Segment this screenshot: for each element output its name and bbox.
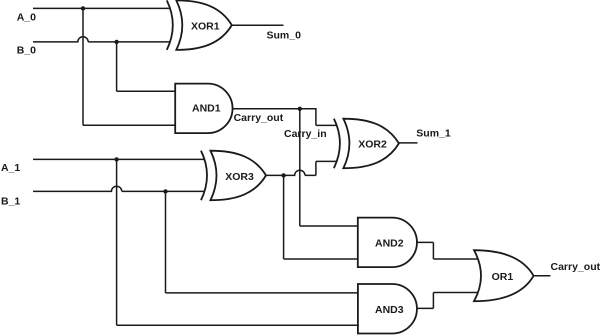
svg-text:Sum_0: Sum_0 xyxy=(267,30,302,42)
svg-text:AND1: AND1 xyxy=(192,103,221,115)
svg-text:AND3: AND3 xyxy=(375,304,404,316)
svg-text:XOR2: XOR2 xyxy=(358,138,387,150)
svg-text:Carry_out: Carry_out xyxy=(551,261,600,273)
svg-text:OR1: OR1 xyxy=(492,271,514,283)
svg-text:Carry_out: Carry_out xyxy=(234,112,284,124)
svg-text:B_0: B_0 xyxy=(17,45,36,57)
svg-text:B_1: B_1 xyxy=(1,195,20,207)
svg-text:XOR1: XOR1 xyxy=(191,21,220,33)
svg-text:Carry_in: Carry_in xyxy=(284,128,327,140)
svg-text:A_0: A_0 xyxy=(17,12,36,24)
svg-text:AND2: AND2 xyxy=(375,237,404,249)
svg-text:XOR3: XOR3 xyxy=(225,171,254,183)
svg-text:Sum_1: Sum_1 xyxy=(416,128,451,140)
svg-text:A_1: A_1 xyxy=(1,162,20,174)
